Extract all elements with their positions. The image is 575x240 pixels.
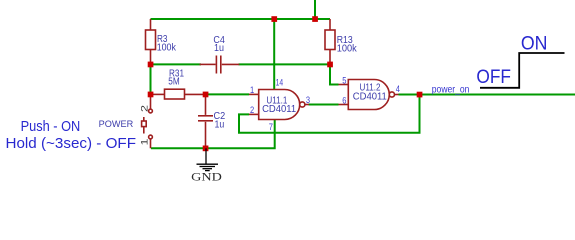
svg-text:Push - ON: Push - ON (21, 119, 81, 135)
wire U11.1 output to U11.2 pin6 (309, 104, 339, 106)
waveform OFF-to-ON step (480, 53, 565, 88)
resistor R31 (151, 89, 206, 99)
wire power_on net (399, 94, 575, 96)
svg-text:1u: 1u (215, 119, 225, 130)
svg-text:5M: 5M (168, 76, 179, 87)
svg-text:GND: GND (191, 169, 222, 183)
gate U11.2 (NAND CD4011) (339, 80, 399, 110)
svg-text:100k: 100k (157, 43, 177, 54)
junction R31 / C2 top (203, 92, 209, 98)
junction top rail / pin14 (271, 16, 277, 22)
svg-text:4: 4 (396, 84, 400, 94)
capacitor C2 (198, 94, 213, 148)
wire feedback to U11.1 pin2 (239, 95, 420, 133)
resistor R3 (146, 19, 156, 64)
svg-text:Hold (~3sec) - OFF: Hold (~3sec) - OFF (6, 135, 137, 152)
capacitor C4 (200, 56, 240, 74)
gate U11.1 (NAND CD4011) (249, 90, 309, 120)
svg-text:POWER: POWER (99, 119, 134, 129)
svg-text:1: 1 (250, 85, 254, 95)
svg-text:14: 14 (276, 78, 284, 88)
wire middle left (R3 to C4) (151, 63, 202, 65)
wire ground rail (151, 120, 275, 149)
svg-text:100k: 100k (337, 43, 358, 54)
pushbutton switch POWER (142, 94, 153, 148)
wire middle right (C4 to R13) (239, 63, 331, 65)
wire node to U11.1 pin1 (206, 93, 250, 95)
svg-text:power_on: power_on (432, 84, 470, 95)
wire R3 junction down to switch (150, 64, 152, 94)
resistor R13 (325, 19, 335, 64)
svg-text:1: 1 (140, 139, 150, 146)
junction R3 bottom (148, 62, 154, 68)
svg-text:6: 6 (342, 95, 346, 105)
wire top supply stub (314, 0, 316, 19)
svg-text:2: 2 (140, 105, 150, 112)
svg-text:7: 7 (269, 122, 273, 132)
svg-text:3: 3 (306, 95, 310, 105)
svg-text:CD4011: CD4011 (262, 104, 296, 115)
junction C2 bottom / GND (203, 146, 209, 152)
ground (197, 148, 219, 170)
wire R13 junction to U11.2 pin5 (330, 64, 339, 84)
junction switch top / R31 (148, 92, 154, 98)
junction R13 bottom (327, 62, 333, 68)
svg-text:2: 2 (250, 105, 254, 115)
svg-text:5: 5 (342, 76, 346, 86)
wire top rail (151, 18, 331, 20)
svg-text:CD4011: CD4011 (353, 91, 387, 102)
wire pin14 drop (273, 19, 275, 90)
junction top rail / supply stub (312, 16, 318, 22)
svg-text:OFF: OFF (476, 66, 511, 88)
svg-text:ON: ON (521, 33, 548, 55)
svg-text:1u: 1u (214, 43, 224, 54)
junction power_on / feedback (417, 92, 423, 98)
